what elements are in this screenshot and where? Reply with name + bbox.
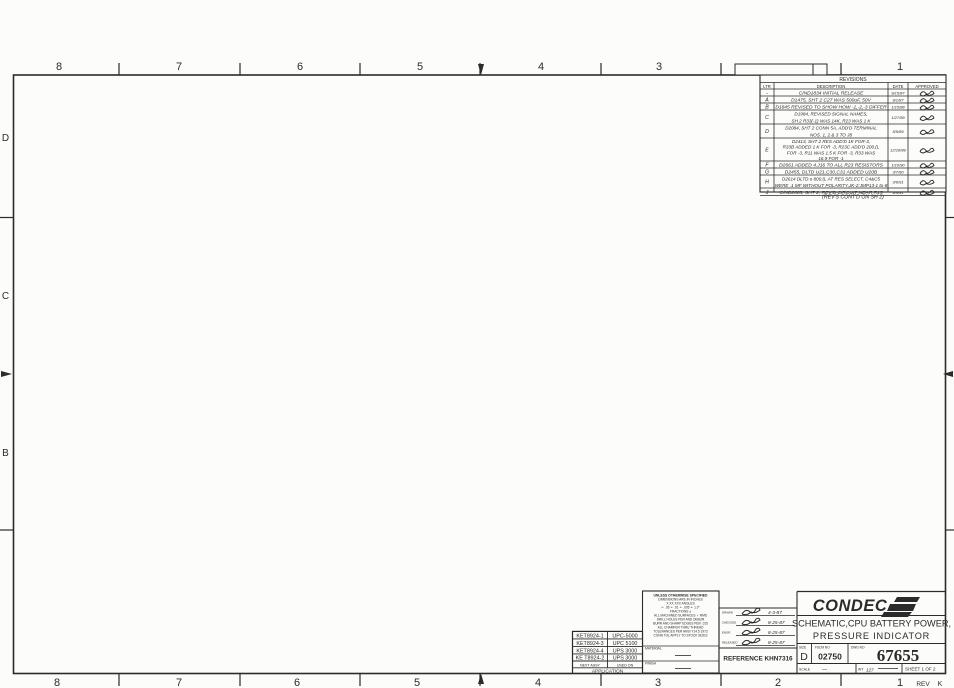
svg-text:3: 3 <box>656 61 662 73</box>
svg-text:12/18/89: 12/18/89 <box>890 148 906 153</box>
svg-text:7: 7 <box>176 677 182 688</box>
svg-text:D2413, SHT 2 RES ADD'D 1K FOR: D2413, SHT 2 RES ADD'D 1K FOR-3, <box>792 139 870 144</box>
svg-text:3: 3 <box>655 677 661 688</box>
svg-text:2: 2 <box>775 677 781 688</box>
svg-text:PRESSURE INDICATOR: PRESSURE INDICATOR <box>813 631 930 641</box>
svg-text:9/15/87: 9/15/87 <box>891 91 905 96</box>
svg-text:SCALE: SCALE <box>799 668 811 672</box>
svg-text:C: C <box>765 115 769 121</box>
svg-text:SHEET 1 OF 2: SHEET 1 OF 2 <box>905 667 936 672</box>
svg-text:5: 5 <box>417 61 423 73</box>
svg-text:UPS 3000: UPS 3000 <box>613 656 638 662</box>
svg-text:5/9/89: 5/9/89 <box>892 129 904 134</box>
svg-text:G: G <box>765 170 769 176</box>
svg-text:4-3-87: 4-3-87 <box>768 610 782 616</box>
svg-text:4: 4 <box>535 677 541 688</box>
svg-text:D1845 REVISED TO SHOW HOW -1,: D1845 REVISED TO SHOW HOW -1,-2,-3 DIFFE… <box>775 105 887 111</box>
svg-text:—: — <box>822 667 827 673</box>
svg-text:8: 8 <box>54 677 60 688</box>
svg-text:FSCM NO: FSCM NO <box>815 646 830 650</box>
svg-text:RELEASED: RELEASED <box>722 641 737 645</box>
svg-text:DRAWN: DRAWN <box>722 611 733 615</box>
svg-text:D1475, SHT 2 C27 WAS 500uF, 5: D1475, SHT 2 C27 WAS 500uF, 50V <box>791 98 871 104</box>
svg-text:C: C <box>2 291 9 302</box>
svg-text:67655: 67655 <box>877 646 920 665</box>
svg-text:SH 2 R33(-1) WAS 14K, R23 WAS: SH 2 R33(-1) WAS 14K, R23 WAS 1 K <box>792 119 872 124</box>
svg-text:D: D <box>800 651 808 663</box>
svg-text:KET8924-4: KET8924-4 <box>576 648 603 654</box>
svg-text:1: 1 <box>897 677 903 688</box>
svg-text:MATERIAL: MATERIAL <box>645 647 662 651</box>
svg-text:REFERENCE KHN7316: REFERENCE KHN7316 <box>723 656 793 663</box>
svg-text:DESCRIPTION: DESCRIPTION <box>817 84 846 89</box>
svg-text:A: A <box>764 98 769 104</box>
svg-text:4: 4 <box>538 61 544 73</box>
svg-text:8: 8 <box>56 61 62 73</box>
svg-text:-: - <box>766 91 768 97</box>
svg-text:D1984, REVISED SIGNAL NAMES,: D1984, REVISED SIGNAL NAMES, <box>794 112 867 117</box>
svg-text:127: 127 <box>866 668 874 673</box>
svg-text:E: E <box>765 148 769 154</box>
svg-text:J: J <box>765 190 769 196</box>
svg-text:1: 1 <box>897 61 903 73</box>
svg-text:H: H <box>765 180 769 186</box>
svg-text:REVISIONS: REVISIONS <box>839 77 867 83</box>
svg-text:D2661 ADDED 4.J16 TO ALL R23 R: D2661 ADDED 4.J16 TO ALL R23 RESISTORS <box>779 163 883 169</box>
svg-text:ENGR: ENGR <box>722 631 730 635</box>
svg-text:REV: REV <box>916 681 930 688</box>
svg-text:CONDEC: CONDEC <box>813 597 888 615</box>
svg-text:4/4/91: 4/4/91 <box>892 190 903 195</box>
svg-text:FINISH: FINISH <box>645 662 657 666</box>
svg-text:UPC-5000: UPC-5000 <box>612 633 637 639</box>
svg-text:APPLICATION: APPLICATION <box>592 668 624 674</box>
svg-text:6: 6 <box>297 61 303 73</box>
svg-text:1/10/90: 1/10/90 <box>891 163 905 168</box>
svg-text:8-25-87: 8-25-87 <box>768 640 785 646</box>
svg-text:7: 7 <box>176 61 182 73</box>
svg-text:(REV'S CONT'D ON SH 2): (REV'S CONT'D ON SH 2) <box>822 195 884 201</box>
svg-text:NEXT ASSY: NEXT ASSY <box>580 663 601 667</box>
svg-text:SIZE: SIZE <box>799 646 806 650</box>
svg-text:KE T8924-2: KE T8924-2 <box>576 656 605 662</box>
svg-text:B: B <box>2 448 9 459</box>
svg-text:FOR -3, R11 WAS 1.5 K FOR -3,: FOR -3, R11 WAS 1.5 K FOR -3, R33 WAS <box>787 150 876 155</box>
svg-text:D2084, SHT 2 CONN 5A, ADD'D TE: D2084, SHT 2 CONN 5A, ADD'D TERMINAL <box>785 126 877 131</box>
svg-text:D: D <box>765 129 769 135</box>
svg-text:WT: WT <box>858 668 863 672</box>
svg-text:1/15/88: 1/15/88 <box>891 105 905 110</box>
svg-text:D2455, DLTD U21,C30,C31 ADDED: D2455, DLTD U21,C30,C31 ADDED U20B <box>785 170 878 176</box>
svg-text:3/7/90: 3/7/90 <box>892 170 904 175</box>
svg-text:LTR: LTR <box>763 84 771 89</box>
svg-text:CHECKED: CHECKED <box>722 621 736 625</box>
svg-text:8-25-87: 8-25-87 <box>768 620 785 626</box>
svg-text:KET8924-3: KET8924-3 <box>576 641 603 647</box>
svg-text:D2614 DLTD o 800.(L AT RES: D2614 DLTD o 800.(L AT RES SELECT, C4&C5 <box>782 176 880 181</box>
svg-text:9/1/87: 9/1/87 <box>892 98 904 103</box>
svg-text:1/27/89: 1/27/89 <box>891 115 905 120</box>
svg-text:DWG NO: DWG NO <box>851 646 865 650</box>
svg-text:CONN TOL APPLY TO STOCK SIZES: CONN TOL APPLY TO STOCK SIZES <box>653 634 707 638</box>
svg-text:USED ON: USED ON <box>617 663 634 667</box>
svg-text:DATE: DATE <box>893 84 904 89</box>
svg-text:UPS 3000: UPS 3000 <box>613 648 638 654</box>
svg-text:5: 5 <box>414 677 420 688</box>
svg-text:B: B <box>765 105 769 111</box>
svg-text:NOS. 1, 2 & 3 TO J8: NOS. 1, 2 & 3 TO J8 <box>810 133 852 138</box>
svg-text:C/ND1834 INITIAL RELEASE: C/ND1834 INITIAL RELEASE <box>799 91 864 97</box>
svg-text:APPROVED: APPROVED <box>915 84 938 89</box>
svg-text:K: K <box>938 681 943 688</box>
svg-text:R33B ADDED 1 K FOR -3, R23C A: R33B ADDED 1 K FOR -3, R23C ADD'D 200.(L <box>783 145 880 150</box>
svg-text:3/6/91: 3/6/91 <box>892 180 903 185</box>
svg-text:02750: 02750 <box>818 652 842 662</box>
svg-text:6: 6 <box>294 677 300 688</box>
svg-text:16.9 FOR -1: 16.9 FOR -1 <box>818 156 844 161</box>
svg-text:KET8924-1: KET8924-1 <box>576 633 603 639</box>
svg-text:8-25-87: 8-25-87 <box>768 630 785 636</box>
svg-text:D: D <box>2 133 9 144</box>
svg-text:WERE .1 MF WITHOUT POLARITY,JK: WERE .1 MF WITHOUT POLARITY,JK-2:JMP13-1… <box>775 183 888 188</box>
svg-text:SCHEMATIC,CPU BATTERY POWER,: SCHEMATIC,CPU BATTERY POWER, <box>792 619 951 629</box>
svg-text:UPC 5100: UPC 5100 <box>613 641 638 647</box>
